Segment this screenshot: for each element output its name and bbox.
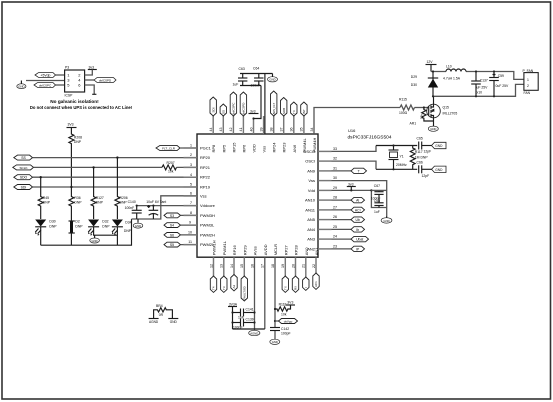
svg-text:PWM2H: PWM2H xyxy=(200,232,215,237)
node T4 tag (pin12) xyxy=(210,276,216,292)
svg-text:OSCI: OSCI xyxy=(305,159,315,164)
svg-text:1: 1 xyxy=(190,144,192,148)
junction on SDI at chain2 xyxy=(70,186,72,188)
svg-text:AVS_FLT: AVS_FLT xyxy=(272,102,276,114)
ground GND (chain3) xyxy=(90,235,100,243)
svg-text:C141: C141 xyxy=(246,307,254,311)
svg-text:C140: C140 xyxy=(128,200,136,204)
wire SDI to pin5 xyxy=(33,186,198,188)
svg-text:x10: x10 xyxy=(477,91,483,95)
wire C63/C64 rail to 3V3 node xyxy=(254,86,262,119)
node AI tag (pin28) xyxy=(332,197,365,202)
svg-text:C137: C137 xyxy=(480,79,488,83)
IC U16 left pin stubs 1-11 xyxy=(184,148,198,245)
svg-text:AN5: AN5 xyxy=(307,217,316,222)
svg-text:TX: TX xyxy=(284,286,288,290)
svg-text:RP23: RP23 xyxy=(282,142,287,153)
capacitor C63 1uF xyxy=(233,67,248,87)
wire pin34 to gate resistor xyxy=(314,108,400,135)
junction 3V3 elbow xyxy=(252,117,254,119)
svg-text:SCLK: SCLK xyxy=(19,166,28,170)
transistor Q15 IRLL2705 xyxy=(427,96,458,124)
power 3V3 (pin40) xyxy=(249,110,259,114)
ground GND (pin30/caps) xyxy=(381,216,392,223)
svg-text:10: 10 xyxy=(188,231,192,235)
svg-text:GND: GND xyxy=(435,144,443,148)
svg-text:AGND: AGND xyxy=(250,331,258,335)
svg-text:A2: A2 xyxy=(232,284,236,288)
diode D2 xyxy=(69,220,84,246)
svg-text:IRLL2705: IRLL2705 xyxy=(443,112,458,116)
svg-text:10k: 10k xyxy=(168,170,174,174)
junction Vddcore caps xyxy=(136,205,138,207)
svg-text:GND: GND xyxy=(91,239,97,243)
svg-text:SDI: SDI xyxy=(211,107,215,112)
svg-text:10uF 6V: 10uF 6V xyxy=(146,200,160,204)
svg-text:Y1: Y1 xyxy=(400,154,404,158)
svg-text:R127: R127 xyxy=(96,196,104,200)
wire R207 to pin3 xyxy=(177,166,198,168)
wire fan return rail xyxy=(433,84,524,96)
node dsICSPD tag (P3 pin4) xyxy=(85,78,116,83)
svg-text:C67: C67 xyxy=(374,184,380,188)
svg-text:11: 11 xyxy=(188,240,192,244)
node SCLK tag xyxy=(13,165,34,170)
svg-text:3V3A: 3V3A xyxy=(229,302,238,306)
svg-text:36: 36 xyxy=(290,128,294,132)
svg-text:RP6: RP6 xyxy=(241,144,246,153)
svg-text:Vddcore: Vddcore xyxy=(200,203,216,208)
svg-text:20: 20 xyxy=(291,264,295,268)
svg-text:AN4: AN4 xyxy=(307,227,316,232)
svg-text:21: 21 xyxy=(302,264,306,268)
svg-text:5: 5 xyxy=(190,183,192,187)
resistor R45 DNP xyxy=(38,177,50,219)
junction on SCLK at chain3 xyxy=(92,166,94,168)
svg-text:14: 14 xyxy=(230,264,234,268)
svg-text:dsICSPC: dsICSPC xyxy=(39,83,52,87)
svg-text:INT: INT xyxy=(302,109,306,114)
diode D29/D30 xyxy=(411,72,438,97)
capacitor C139 100nF xyxy=(233,318,255,330)
svg-text:R208: R208 xyxy=(74,135,82,139)
svg-text:GND: GND xyxy=(430,127,436,131)
svg-text:+5Vdp: +5Vdp xyxy=(41,73,51,77)
svg-text:RP15: RP15 xyxy=(231,142,236,153)
junction on SDO at chain1 xyxy=(40,176,42,178)
svg-text:2: 2 xyxy=(527,84,529,88)
svg-text:RP20: RP20 xyxy=(200,155,211,160)
svg-text:Do not connect when UPS is con: Do not connect when UPS is connected to … xyxy=(30,105,132,110)
svg-text:37: 37 xyxy=(280,128,284,132)
svg-text:AN11: AN11 xyxy=(305,207,315,212)
svg-text:No galvanic isolation!: No galvanic isolation! xyxy=(50,99,99,104)
svg-text:32: 32 xyxy=(333,157,337,161)
inductor L10 4.7uH 1.5A xyxy=(443,64,466,80)
svg-text:Ubat: Ubat xyxy=(356,238,363,242)
node dsICSPC tag xyxy=(34,83,56,88)
svg-text:GND: GND xyxy=(269,78,275,82)
node AC1 tag (pin22) xyxy=(313,273,319,289)
ground GND (C140) xyxy=(133,219,143,228)
svg-text:AGND: AGND xyxy=(149,320,159,324)
wire crystal top rail xyxy=(376,145,417,147)
svg-text:29: 29 xyxy=(333,186,337,190)
node SDI tag xyxy=(14,185,33,190)
svg-text:3V3: 3V3 xyxy=(287,301,293,305)
svg-text:C63: C63 xyxy=(239,67,245,71)
svg-text:AC1: AC1 xyxy=(314,281,318,287)
wire GND top rail xyxy=(240,73,273,75)
svg-text:P3: P3 xyxy=(65,66,69,70)
svg-text:0uF 25V: 0uF 25V xyxy=(496,84,510,88)
svg-text:D2: D2 xyxy=(75,220,79,224)
svg-text:Vdd: Vdd xyxy=(308,188,315,193)
svg-text:8: 8 xyxy=(190,211,192,215)
svg-text:R118: R118 xyxy=(279,303,287,307)
svg-text:ICSP: ICSP xyxy=(65,94,74,98)
IC U16 right pin names xyxy=(303,149,316,252)
wire Vss pin6 xyxy=(132,196,198,219)
svg-text:12pF: 12pF xyxy=(424,149,432,153)
IC U16 bottom pin stubs 12-22 xyxy=(214,257,317,277)
svg-text:SS: SS xyxy=(222,110,226,114)
svg-text:dsICSPD: dsICSPD xyxy=(99,78,112,82)
wire Vss pin30 xyxy=(332,181,387,216)
svg-text:18: 18 xyxy=(271,264,275,268)
capacitor C64 100nF xyxy=(251,67,264,88)
capacitor C65 12pF xyxy=(417,136,432,153)
svg-text:C68: C68 xyxy=(374,199,380,203)
node Ub tag (pin26) xyxy=(332,217,365,222)
node SS tag xyxy=(14,155,33,160)
svg-text:16: 16 xyxy=(250,264,254,268)
svg-text:Ub: Ub xyxy=(356,218,360,222)
wire Vdd pin29 xyxy=(332,190,387,207)
capacitor C59 10uF 25V xyxy=(489,70,509,97)
svg-text:100Ω: 100Ω xyxy=(399,111,408,115)
wire 3V3A to AVdd xyxy=(233,328,265,330)
power 3V3 (P3 pin2) xyxy=(85,65,97,75)
svg-text:Vss: Vss xyxy=(200,194,207,199)
svg-text:PWM3L: PWM3L xyxy=(200,223,215,228)
resistor R208 xyxy=(69,128,82,187)
wire crystal bottom rail xyxy=(376,168,417,170)
svg-text:1uF: 1uF xyxy=(233,83,239,87)
node TX tag (pin19) xyxy=(282,276,288,292)
svg-text:D30: D30 xyxy=(49,220,55,224)
svg-text:P_FAN: P_FAN xyxy=(523,69,534,73)
connector P_FAN xyxy=(523,69,539,95)
capacitor C142 100pF xyxy=(270,327,291,339)
ground AGND (pin16) xyxy=(249,330,260,335)
ground GND (C63/C64) xyxy=(268,74,278,82)
svg-text:27: 27 xyxy=(333,206,337,210)
svg-text:D29: D29 xyxy=(411,75,417,79)
svg-text:44: 44 xyxy=(209,128,213,132)
IC U16 right pin stubs 33-23 xyxy=(318,151,332,249)
svg-text:33: 33 xyxy=(333,147,337,151)
resistor R115 100 xyxy=(399,98,428,116)
node S3 tag xyxy=(164,213,197,218)
wire SS to pin2 xyxy=(33,157,198,159)
svg-text:Vss: Vss xyxy=(308,178,315,183)
svg-text:ACI: ACI xyxy=(355,208,361,212)
power 3V3 (pin29 Vdd) xyxy=(347,182,356,190)
capacitor C66 12pF xyxy=(417,161,432,178)
svg-text:FLT_CLR: FLT_CLR xyxy=(162,146,176,150)
svg-text:RP16: RP16 xyxy=(232,245,237,256)
node T tag (pin31) xyxy=(332,168,367,173)
svg-text:RP29: RP29 xyxy=(242,245,247,256)
svg-text:R207: R207 xyxy=(167,161,175,165)
IC U16 dsPIC33FJ16GS504 body xyxy=(197,134,318,257)
IC U16 left pin names xyxy=(200,146,216,248)
svg-text:AVDD: AVDD xyxy=(263,244,268,255)
power 3V3A xyxy=(228,302,238,329)
ground GND (Q15 source) xyxy=(428,124,438,132)
node A2 tag (pin14) xyxy=(231,275,237,291)
svg-text:S3: S3 xyxy=(170,214,174,218)
wire OSCI pin32 xyxy=(332,161,377,169)
svg-text:AN10: AN10 xyxy=(305,198,316,203)
svg-text:7: 7 xyxy=(190,201,192,205)
svg-text:GND: GND xyxy=(383,219,389,223)
node SS tag (pin43) xyxy=(220,104,226,116)
svg-text:MCLR: MCLR xyxy=(273,244,278,255)
IC U16 bottom pin names xyxy=(212,240,320,255)
svg-text:PGC1: PGC1 xyxy=(200,146,212,151)
svg-text:3v3: 3v3 xyxy=(250,110,256,114)
junction Vdd/C67 xyxy=(370,189,372,191)
resistor R118 10k xyxy=(274,303,291,317)
svg-text:PWM4H: PWM4H xyxy=(312,138,317,153)
svg-text:D30: D30 xyxy=(411,83,417,87)
wire pin39 to GND rail xyxy=(264,74,266,135)
svg-text:AN1: AN1 xyxy=(314,247,319,256)
capacitor C67 100nF xyxy=(371,184,387,203)
wire AVss pin16 xyxy=(254,257,256,331)
svg-text:100pF: 100pF xyxy=(281,331,291,335)
svg-text:U16: U16 xyxy=(348,128,356,133)
svg-text:39: 39 xyxy=(259,128,263,132)
svg-text:23: 23 xyxy=(333,245,337,249)
node FLT_CLR tag xyxy=(156,145,197,150)
svg-text:R117: R117 xyxy=(415,150,423,154)
IC U16 top pin stubs 44-34 xyxy=(213,116,304,134)
svg-text:RP21: RP21 xyxy=(200,165,211,170)
LED D32 xyxy=(88,220,117,236)
svg-text:DNP: DNP xyxy=(74,200,82,204)
node RX tag (pin20) xyxy=(292,276,298,292)
IC U16 left pin numbers xyxy=(188,144,192,245)
junction C141/C139 xyxy=(231,311,233,313)
svg-text:R45: R45 xyxy=(43,196,49,200)
svg-text:GND: GND xyxy=(135,224,141,228)
wire 12V rail xyxy=(431,72,524,80)
power 3V3 (R118) xyxy=(286,301,295,305)
svg-text:VDD: VDD xyxy=(252,144,257,153)
svg-text:dsICSPC: dsICSPC xyxy=(232,103,236,115)
node GND tag (C65) xyxy=(432,142,447,148)
wire SCLK to R207 xyxy=(34,166,163,168)
svg-text:3v3: 3v3 xyxy=(348,182,354,186)
resistor BR4 0R xyxy=(154,304,173,319)
svg-text:3: 3 xyxy=(190,163,192,167)
svg-text:Q15: Q15 xyxy=(443,106,450,110)
svg-text:20MHz: 20MHz xyxy=(396,163,407,167)
node T3 tag (pin13) xyxy=(221,276,227,292)
svg-text:D32: D32 xyxy=(102,220,108,224)
svg-text:GND: GND xyxy=(435,168,443,172)
svg-text:3v3: 3v3 xyxy=(89,65,95,69)
junction diode top xyxy=(432,70,434,72)
resistor AR1 10k gate pulldown xyxy=(410,106,434,125)
LED D34 xyxy=(112,220,132,246)
svg-text:SDB: SDB xyxy=(282,108,286,114)
svg-text:12: 12 xyxy=(209,264,213,268)
node FAULT/SD tag (pin15) xyxy=(241,276,247,301)
node SDI tag (pin44) xyxy=(210,97,216,116)
svg-text:RP5: RP5 xyxy=(221,144,226,153)
node dsVpp tag (MCLR) xyxy=(274,319,298,324)
svg-text:RP27: RP27 xyxy=(283,245,288,256)
svg-text:24: 24 xyxy=(333,235,337,239)
node S5 tag xyxy=(164,242,197,247)
svg-text:Vss: Vss xyxy=(262,146,267,153)
svg-text:C64: C64 xyxy=(253,67,259,71)
svg-text:12V: 12V xyxy=(427,60,434,64)
svg-text:26: 26 xyxy=(333,215,337,219)
svg-text:RP8: RP8 xyxy=(211,144,216,153)
svg-text:30: 30 xyxy=(333,176,337,180)
svg-text:15: 15 xyxy=(240,264,244,268)
svg-text:T4: T4 xyxy=(212,286,216,290)
svg-text:AN6: AN6 xyxy=(292,144,297,153)
ground GND (left of ICSP) xyxy=(17,81,26,89)
svg-text:AI: AI xyxy=(356,199,359,203)
IC U16 right pin numbers xyxy=(333,147,337,249)
node dsICSPC tag (pin42) xyxy=(230,92,236,116)
svg-text:6: 6 xyxy=(190,192,192,196)
svg-text:22: 22 xyxy=(312,264,316,268)
resistor R36 DNP xyxy=(69,187,82,221)
svg-text:FAN: FAN xyxy=(524,91,531,95)
svg-text:41: 41 xyxy=(239,128,243,132)
IC U16 top pin names xyxy=(211,138,317,153)
svg-text:R206: R206 xyxy=(120,196,128,200)
svg-text:25: 25 xyxy=(333,225,337,229)
wire 3V3 bottom rail xyxy=(240,85,261,87)
svg-text:RP22: RP22 xyxy=(200,175,211,180)
svg-text:4: 4 xyxy=(190,173,192,177)
svg-text:S4: S4 xyxy=(170,224,174,228)
svg-text:AVss: AVss xyxy=(253,246,258,255)
capacitor tantalum 10uF 6V xyxy=(146,200,166,219)
svg-text:4.7uH 1.5A: 4.7uH 1.5A xyxy=(443,76,461,80)
wire Vddcore pin7 xyxy=(137,205,197,207)
svg-text:19: 19 xyxy=(281,264,285,268)
svg-text:GND: GND xyxy=(272,340,278,344)
crystal Y1 20MHz xyxy=(389,144,408,170)
wire dsICSPC to P3 pin5 xyxy=(56,84,65,86)
svg-text:DNP: DNP xyxy=(49,225,57,229)
resistor R207 10k xyxy=(162,161,176,173)
svg-text:C142: C142 xyxy=(281,327,289,331)
capacitor C141 1uF xyxy=(233,307,255,319)
svg-text:10k: 10k xyxy=(419,114,423,119)
wire AVdd pin17 xyxy=(264,257,266,329)
wire OSCO pin33 xyxy=(332,146,377,152)
junction on SS at chain4 xyxy=(116,156,118,158)
svg-text:AN0: AN0 xyxy=(304,247,309,256)
svg-text:AR1: AR1 xyxy=(410,121,417,125)
ground GND (BR4 right) xyxy=(168,319,178,324)
svg-text:D34: D34 xyxy=(125,221,131,225)
svg-text:40: 40 xyxy=(249,128,253,132)
power 3V3 (R208 pullup) xyxy=(67,123,77,128)
svg-text:DNP: DNP xyxy=(120,200,128,204)
IC U16 bottom pin numbers xyxy=(209,264,315,268)
LED D30 xyxy=(35,220,57,246)
svg-text:AN3: AN3 xyxy=(307,237,316,242)
node INT tag (pin35) xyxy=(301,102,307,116)
svg-text:GND: GND xyxy=(170,320,178,324)
svg-text:PWM4L: PWM4L xyxy=(302,138,307,153)
wire +5Vdp to P3 pin1 xyxy=(56,74,65,76)
power 12V xyxy=(426,60,437,71)
svg-text:RP19: RP19 xyxy=(200,185,211,190)
svg-text:100nF: 100nF xyxy=(125,206,135,210)
capacitor C68 1uF xyxy=(374,199,384,214)
ground AGND (BR4 left) xyxy=(149,319,159,324)
resistor R117 1M DNP xyxy=(410,146,428,170)
svg-text:dsPIC33FJ16GS504: dsPIC33FJ16GS504 xyxy=(348,135,392,141)
capacitor C137 uF 25V x10 xyxy=(471,70,488,97)
svg-text:uF 25V: uF 25V xyxy=(477,86,489,90)
ground GND (C142) xyxy=(270,339,280,344)
node I tag (pin21) xyxy=(303,277,309,290)
svg-text:RP24: RP24 xyxy=(272,142,277,153)
svg-text:1: 1 xyxy=(527,78,529,82)
svg-text:42: 42 xyxy=(229,128,233,132)
svg-text:2: 2 xyxy=(190,153,192,157)
node S4 tag xyxy=(164,223,197,228)
node AVS_FLT tag (pin38) xyxy=(271,91,277,116)
svg-text:0R: 0R xyxy=(159,313,164,317)
svg-text:PWM3H: PWM3H xyxy=(200,213,215,218)
svg-text:DNP: DNP xyxy=(75,225,83,229)
node ACI tag (pin27) xyxy=(332,207,365,212)
svg-text:T3: T3 xyxy=(222,286,226,290)
svg-text:Tant: Tant xyxy=(160,200,166,204)
svg-text:34: 34 xyxy=(310,128,314,132)
svg-text:C139: C139 xyxy=(246,318,254,322)
junction Q15 drain xyxy=(432,95,434,97)
node dsICSPD tag (pin41) xyxy=(240,92,246,116)
svg-text:DNP: DNP xyxy=(43,200,51,204)
svg-text:L10: L10 xyxy=(446,64,452,68)
svg-text:T: T xyxy=(358,169,360,173)
svg-text:SDI: SDI xyxy=(21,185,27,189)
svg-text:GND: GND xyxy=(18,85,24,89)
node Ubat tag (pin24) xyxy=(332,236,369,241)
svg-text:17: 17 xyxy=(261,264,265,268)
node SDB tag (pin37) xyxy=(281,98,287,117)
capacitor C140 100nF xyxy=(125,200,142,219)
svg-text:13: 13 xyxy=(220,264,224,268)
svg-text:C59: C59 xyxy=(498,74,504,78)
